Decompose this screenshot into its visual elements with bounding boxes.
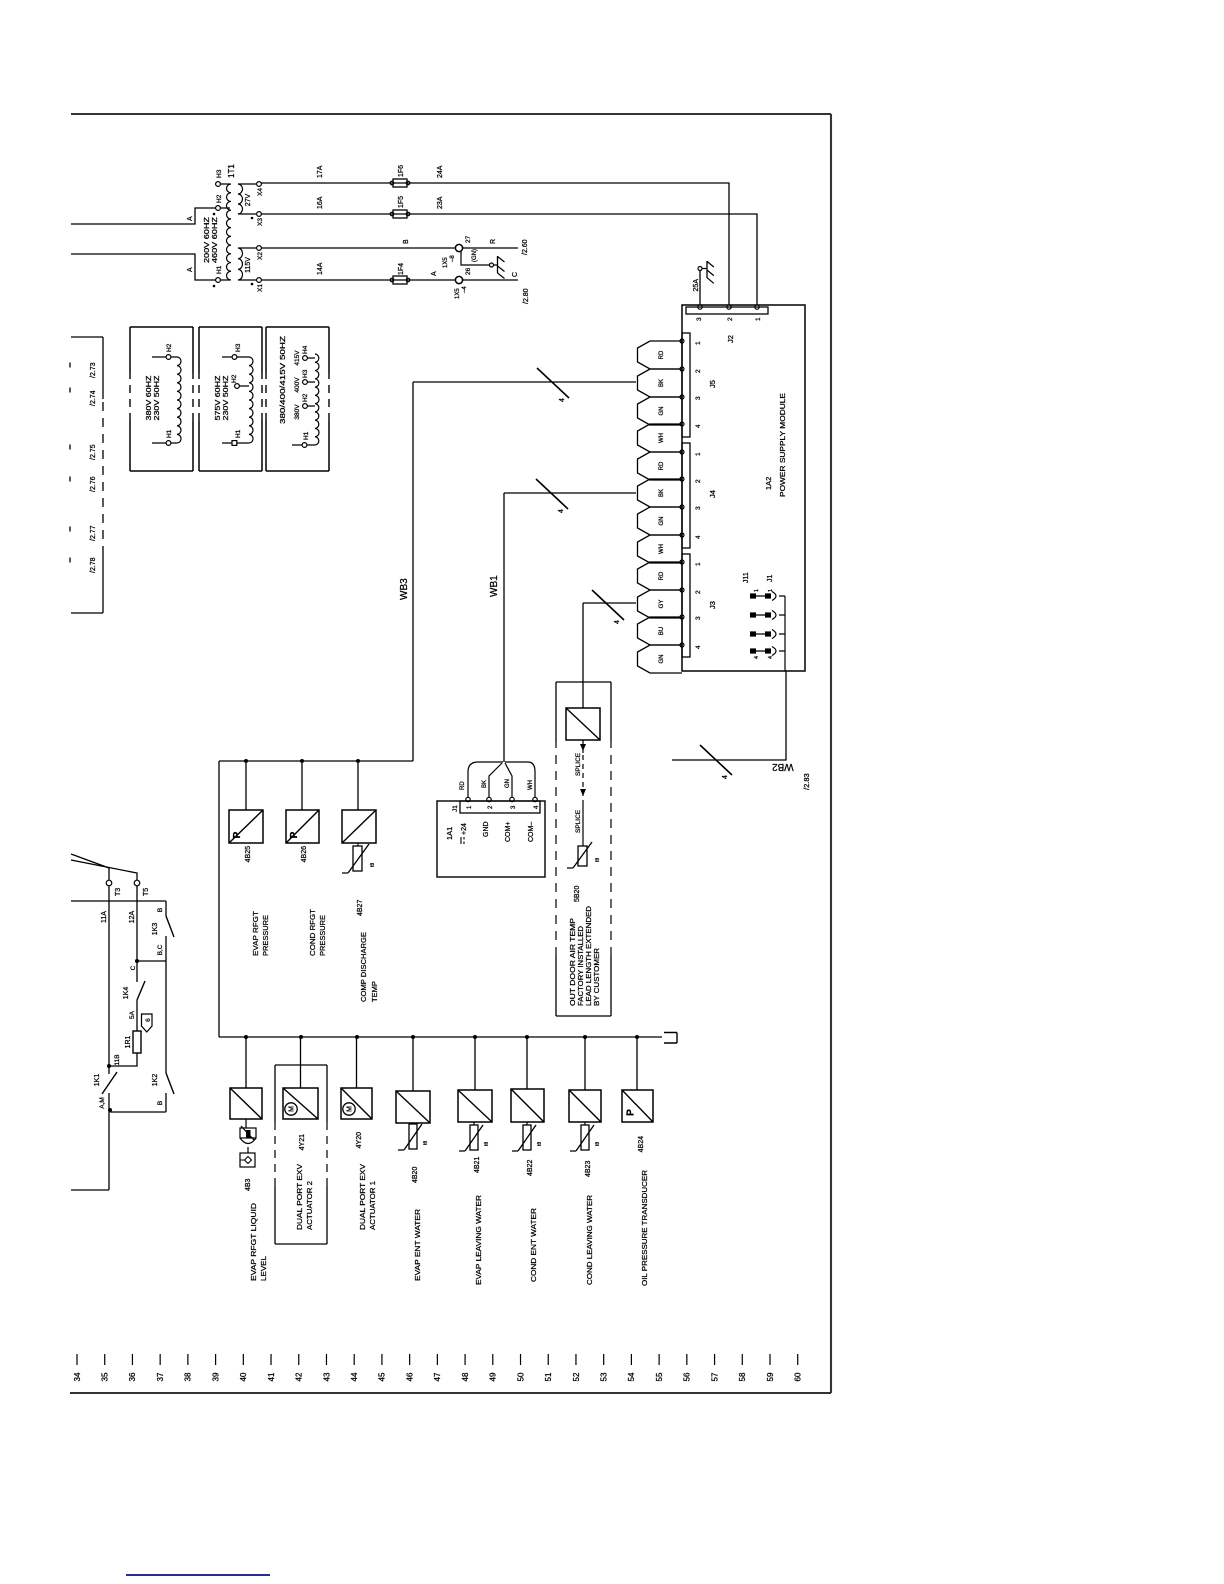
sensor 5B20 thermistor xyxy=(578,846,587,866)
junction dot 11B xyxy=(107,1064,111,1068)
svg-text:400V: 400V xyxy=(294,377,301,393)
1T1 115V secondary winding xyxy=(238,248,243,280)
4B21 wire to rail xyxy=(474,1038,476,1090)
svg-text:RD: RD xyxy=(460,781,466,790)
wire segment to 1K2 xyxy=(165,961,167,1073)
svg-text:/2.80: /2.80 xyxy=(523,288,530,304)
splice junction box xyxy=(566,708,600,740)
svg-text:A,M: A,M xyxy=(99,1097,106,1109)
svg-text:H2: H2 xyxy=(231,374,238,383)
extended lead (dashed) xyxy=(582,755,584,798)
winding (380V/230V option) xyxy=(177,357,181,443)
svg-text:OIL PRESSURE TRANSDUCER: OIL PRESSURE TRANSDUCER xyxy=(640,1169,649,1286)
wire B,C segment xyxy=(165,936,167,961)
dashed option box (out door air temp sensor) xyxy=(556,1015,611,1017)
wire segment to junction xyxy=(108,1093,110,1190)
1A1 wire WH xyxy=(505,762,535,797)
J4 pin 4 xyxy=(680,533,684,537)
svg-text:B,C: B,C xyxy=(157,944,164,955)
svg-text:(GN): (GN) xyxy=(472,249,478,262)
4B26 wire xyxy=(301,763,303,810)
terminal H2 tap (575V option) xyxy=(235,384,240,389)
wire to top border xyxy=(71,1189,109,1191)
svg-text:12A: 12A xyxy=(129,910,136,923)
sensor 4B22 cond ent water xyxy=(511,1089,544,1122)
J4 wire RD xyxy=(638,452,683,480)
wire tee to 12A rail xyxy=(137,960,166,962)
wire count slash WB2 xyxy=(700,745,732,775)
svg-text:4B23: 4B23 xyxy=(585,1161,592,1177)
svg-text:3: 3 xyxy=(695,616,702,620)
svg-text:ACTUATOR 2: ACTUATOR 2 xyxy=(305,1181,314,1230)
svg-text:35: 35 xyxy=(101,1372,110,1381)
svg-text:1: 1 xyxy=(755,317,762,321)
svg-text:B: B xyxy=(157,1101,164,1105)
svg-text:EVAP LEAVING WATER: EVAP LEAVING WATER xyxy=(474,1194,483,1285)
svg-text:J4: J4 xyxy=(708,490,717,498)
svg-text:53: 53 xyxy=(599,1372,608,1381)
svg-text:1K4: 1K4 xyxy=(123,987,130,1000)
ground terminal circle xyxy=(490,263,494,267)
svg-text:WH: WH xyxy=(659,433,665,443)
svg-text:GY: GY xyxy=(659,600,665,609)
svg-text:COMP DISCHARGE: COMP DISCHARGE xyxy=(359,932,368,1002)
fuse 1F5 xyxy=(393,210,407,218)
actuator 4Y21 dual port exv actuator 2 xyxy=(283,1088,318,1119)
connector J5 housing xyxy=(682,333,690,437)
terminal H3 tap 400V xyxy=(303,380,308,385)
svg-text:T5: T5 xyxy=(143,888,150,896)
svg-text:H3: H3 xyxy=(216,169,223,178)
terminal H4 tap 415V xyxy=(303,356,308,361)
svg-text:56: 56 xyxy=(683,1372,692,1381)
svg-text:2: 2 xyxy=(695,369,702,373)
4Y20 wire to rail xyxy=(356,1038,358,1088)
svg-text:X4: X4 xyxy=(257,188,264,196)
svg-text:575V 60HZ: 575V 60HZ xyxy=(215,375,222,421)
svg-text:RD: RD xyxy=(659,571,665,580)
svg-text:J1: J1 xyxy=(767,575,774,583)
svg-text:1: 1 xyxy=(754,589,760,592)
svg-text:DUAL PORT EXV: DUAL PORT EXV xyxy=(358,1164,367,1230)
svg-text:H4: H4 xyxy=(302,345,309,354)
J5 wire BK xyxy=(638,369,683,397)
svg-text:4Y20: 4Y20 xyxy=(356,1132,363,1148)
junction 4Y21 xyxy=(299,1035,303,1039)
junction 4B25 xyxy=(244,759,248,763)
svg-text:FACTORY INSTALLED: FACTORY INSTALLED xyxy=(578,926,585,1006)
svg-text:WH: WH xyxy=(528,780,534,790)
jumper pin row 4 J11-J1 xyxy=(750,648,756,653)
svg-text:1X5: 1X5 xyxy=(443,257,449,268)
J3 pin 1 xyxy=(680,560,684,564)
svg-text:16A: 16A xyxy=(317,196,324,209)
wire B segment xyxy=(165,901,167,916)
svg-text:OUT DOOR AIR TEMP: OUT DOOR AIR TEMP xyxy=(570,918,577,1006)
J4 wire WH xyxy=(638,535,683,563)
4B27 thermistor xyxy=(353,846,362,871)
J4 wire BK xyxy=(638,479,683,507)
svg-text:5B20: 5B20 xyxy=(574,886,581,902)
svg-text:EVAP ENT WATER: EVAP ENT WATER xyxy=(413,1208,422,1281)
svg-text:3: 3 xyxy=(695,506,702,510)
junction 4B24 xyxy=(635,1035,639,1039)
svg-text:14A: 14A xyxy=(317,262,324,275)
svg-text:/2.83: /2.83 xyxy=(802,773,811,790)
fuse 1F6 xyxy=(393,179,407,187)
svg-text:EVAP RFGT LIQUID: EVAP RFGT LIQUID xyxy=(249,1202,258,1281)
terminal H1 (415V option) xyxy=(292,444,302,446)
sensor 4B21 evap leaving water xyxy=(458,1090,492,1122)
svg-text:WB1: WB1 xyxy=(489,575,500,597)
svg-text:4: 4 xyxy=(558,509,565,513)
J5 wire RD xyxy=(638,341,683,369)
svg-text:49: 49 xyxy=(489,1372,498,1381)
wire 11A rail xyxy=(108,886,110,1074)
svg-text:COM+: COM+ xyxy=(505,822,512,842)
4B3 wire to rail xyxy=(245,1038,247,1088)
svg-text:LEVEL: LEVEL xyxy=(259,1256,268,1281)
junction 4Y20 xyxy=(355,1035,359,1039)
wire 14A from X1 xyxy=(261,279,408,281)
J5 pin 3 xyxy=(680,395,684,399)
splice lead (factory) xyxy=(582,740,584,753)
svg-text:GN: GN xyxy=(505,779,511,788)
svg-text:3: 3 xyxy=(696,317,703,321)
junction 4B21 xyxy=(473,1035,477,1039)
wire segment after 1K2 xyxy=(165,1093,167,1112)
4B23 wire to rail xyxy=(584,1038,586,1090)
1A1 J1 connector strip xyxy=(460,801,540,813)
svg-text:51: 51 xyxy=(544,1372,553,1381)
terminal T5 xyxy=(134,880,140,886)
svg-text:BK: BK xyxy=(659,379,665,387)
J3 pin 4 xyxy=(680,643,684,647)
1T1 terminal H1 xyxy=(216,278,221,283)
svg-text:C: C xyxy=(512,272,519,277)
4B20 thermistor xyxy=(409,1124,417,1149)
svg-text:27V: 27V xyxy=(245,193,252,206)
J1 common wire to WB2 xyxy=(784,596,786,671)
terminal H2 (380V option) xyxy=(152,356,166,358)
svg-text:115V: 115V xyxy=(245,257,252,273)
svg-text:M: M xyxy=(347,1106,354,1112)
J5 wire WH xyxy=(638,424,683,452)
svg-text:tθ: tθ xyxy=(423,1141,429,1145)
svg-text:52: 52 xyxy=(572,1372,581,1381)
svg-text:X3: X3 xyxy=(257,218,264,226)
4B20 wire to rail xyxy=(412,1038,414,1091)
junction 4B22 xyxy=(525,1035,529,1039)
bus WB2 xyxy=(672,671,786,760)
svg-text:4B24: 4B24 xyxy=(638,1136,645,1152)
wire 24A to J2 pin 2 xyxy=(407,183,729,305)
svg-text:4: 4 xyxy=(534,805,540,809)
svg-text:1K1: 1K1 xyxy=(94,1074,101,1087)
svg-text:48: 48 xyxy=(461,1372,470,1381)
svg-text:24A: 24A xyxy=(437,165,444,178)
svg-text:BK: BK xyxy=(659,489,665,497)
svg-text:230V 50HZ: 230V 50HZ xyxy=(154,375,161,421)
jumper pin row 1 J11-J1 xyxy=(750,593,756,598)
svg-text:43: 43 xyxy=(322,1372,331,1381)
chassis ground symbol xyxy=(494,264,498,266)
svg-text:tθ: tθ xyxy=(595,1142,601,1146)
svg-text:tθ: tθ xyxy=(484,1142,490,1146)
svg-text:GN: GN xyxy=(659,407,665,416)
svg-text:6: 6 xyxy=(145,1018,152,1022)
svg-text:57: 57 xyxy=(710,1372,719,1381)
4B25 wire xyxy=(245,763,247,810)
wire from border to terminal T3 xyxy=(71,854,109,880)
1T1 primary winding xyxy=(226,184,231,280)
svg-text:1F5: 1F5 xyxy=(398,196,405,208)
1A1 wire GN xyxy=(505,763,512,797)
svg-text:54: 54 xyxy=(627,1372,636,1381)
svg-text:RD: RD xyxy=(659,350,665,359)
power supply module 1A2 box xyxy=(682,305,805,671)
sensor 4B3 evap rfgt liquid level xyxy=(230,1088,262,1119)
svg-text:4: 4 xyxy=(754,656,760,659)
contact 1K1 xyxy=(102,1072,117,1094)
J4 wire GN xyxy=(638,507,683,535)
svg-text:41: 41 xyxy=(267,1372,276,1381)
svg-text:46: 46 xyxy=(405,1372,414,1381)
svg-text:X1: X1 xyxy=(257,284,264,292)
1T1 27V secondary winding xyxy=(238,184,243,214)
svg-text:5A: 5A xyxy=(129,1010,136,1019)
svg-text:J3: J3 xyxy=(708,601,717,609)
wire 16A from X3 xyxy=(261,213,408,215)
wire 27 to chassis ground xyxy=(461,251,489,265)
svg-text:27: 27 xyxy=(465,235,472,243)
svg-text:H2: H2 xyxy=(166,343,173,352)
actuator 4Y20 dual port exv actuator 1 xyxy=(341,1088,372,1119)
junction 4B3 xyxy=(244,1035,248,1039)
optional transformer box 380V 60HZ / 230V 50HZ xyxy=(130,470,193,472)
svg-text:3: 3 xyxy=(511,805,517,809)
svg-text:/2.77: /2.77 xyxy=(90,525,97,541)
svg-text:ACTUATOR 1: ACTUATOR 1 xyxy=(368,1181,377,1230)
contact 1K2 xyxy=(166,1073,174,1094)
1T1 terminal X2 xyxy=(238,247,256,249)
terminal 1X5-26 xyxy=(455,276,462,283)
lead to sensor xyxy=(582,800,584,846)
svg-text:C: C xyxy=(130,965,137,970)
J4 pin 2 xyxy=(680,477,684,481)
svg-text:A: A xyxy=(187,216,194,221)
svg-text:H2: H2 xyxy=(302,393,309,402)
polarity dot X3 xyxy=(251,217,254,220)
svg-text:H3: H3 xyxy=(302,369,309,378)
svg-text:4: 4 xyxy=(614,620,621,624)
svg-text:P: P xyxy=(626,1109,637,1116)
svg-text:380V 60HZ: 380V 60HZ xyxy=(146,375,153,421)
4B21 thermistor xyxy=(470,1125,478,1150)
4B24 wire to rail xyxy=(636,1038,638,1090)
svg-text:42: 42 xyxy=(295,1372,304,1381)
svg-text:GN: GN xyxy=(659,517,665,526)
wire 5A segment xyxy=(136,1000,138,1031)
svg-text:4: 4 xyxy=(695,535,702,539)
J4 pin 1 xyxy=(680,450,684,454)
svg-text:J11: J11 xyxy=(743,572,750,583)
svg-text:J1: J1 xyxy=(452,805,459,812)
1T1 terminal X1 xyxy=(238,279,256,281)
svg-text:26: 26 xyxy=(465,267,472,275)
supply bus drop wire (left) xyxy=(71,612,103,614)
junction 4B27 xyxy=(356,759,360,763)
svg-text:39: 39 xyxy=(211,1372,220,1381)
svg-text:BK: BK xyxy=(482,780,488,788)
svg-text:PRESSURE: PRESSURE xyxy=(318,915,327,956)
svg-text:1R1: 1R1 xyxy=(125,1035,132,1048)
svg-text:H1: H1 xyxy=(216,265,223,274)
winding (380/400/415V option) xyxy=(315,354,319,445)
J3 wire GN xyxy=(638,645,683,673)
connector J2 body xyxy=(686,307,768,314)
svg-text:BU: BU xyxy=(659,627,665,635)
svg-text:T3: T3 xyxy=(115,888,122,896)
4B3 switch element xyxy=(247,1147,249,1153)
svg-text:/2.75: /2.75 xyxy=(90,444,97,460)
winding (575V option) xyxy=(249,357,253,443)
svg-text:200V 60HZ: 200V 60HZ xyxy=(204,216,211,263)
svg-text:/2.76: /2.76 xyxy=(90,476,97,492)
polarity dot X1 xyxy=(251,283,254,286)
svg-text:3: 3 xyxy=(695,396,702,400)
svg-text:23A: 23A xyxy=(437,196,444,209)
svg-text:1: 1 xyxy=(467,805,473,809)
terminal H2 tap 380V xyxy=(303,404,308,409)
J4 pin 3 xyxy=(680,505,684,509)
J3 pin 3 xyxy=(680,615,684,619)
svg-text:–8: –8 xyxy=(450,255,456,262)
ground terminal circle 25A xyxy=(698,267,702,271)
wire 23A to J2 pin 1 xyxy=(407,214,757,305)
svg-text:55: 55 xyxy=(655,1372,664,1381)
svg-text:COM–: COM– xyxy=(528,822,535,842)
chassis ground symbol at J2-3 xyxy=(702,268,707,270)
terminal 1X5-27 xyxy=(455,244,462,251)
svg-text:1F6: 1F6 xyxy=(398,165,405,177)
svg-text:17A: 17A xyxy=(317,165,324,178)
svg-text:1F4: 1F4 xyxy=(398,263,405,275)
bus WB3 xyxy=(219,382,636,1037)
svg-text:tθ: tθ xyxy=(595,858,601,862)
svg-text:1X5: 1X5 xyxy=(455,288,461,299)
svg-text:TEMP: TEMP xyxy=(370,981,379,1002)
svg-text:380/400/415V 50HZ: 380/400/415V 50HZ xyxy=(280,335,287,424)
J5 wire GN xyxy=(638,397,683,425)
svg-text:WB3: WB3 xyxy=(399,578,410,600)
svg-text:34: 34 xyxy=(73,1372,82,1381)
J3 pin 2 xyxy=(680,588,684,592)
svg-text:11A: 11A xyxy=(101,911,108,923)
svg-text:4B22: 4B22 xyxy=(527,1160,534,1176)
polarity dot H2 xyxy=(213,213,216,216)
wire R to /2.60 xyxy=(463,247,518,249)
4B22 thermistor xyxy=(523,1125,531,1150)
svg-text:PRESSURE: PRESSURE xyxy=(261,915,270,956)
svg-text:1A1: 1A1 xyxy=(445,827,454,840)
4B3 level sensor element xyxy=(245,1119,247,1128)
wire number flag 6 xyxy=(142,1014,153,1032)
polarity dot H1 xyxy=(213,285,216,288)
4Y21 wire to rail xyxy=(300,1038,302,1088)
1A1 +24 label with DC symbol xyxy=(460,837,462,844)
svg-text:58: 58 xyxy=(738,1372,747,1381)
contact 1K4 xyxy=(137,981,145,1000)
wire count slash J3 cable xyxy=(592,590,624,620)
svg-text:4B20: 4B20 xyxy=(412,1167,419,1183)
svg-text:36: 36 xyxy=(128,1372,137,1381)
svg-text:50: 50 xyxy=(516,1372,525,1381)
junction dot 12A/B xyxy=(135,959,139,963)
sensor 4B27 comp discharge temp xyxy=(342,810,376,843)
svg-text:230V 50HZ: 230V 50HZ xyxy=(223,375,230,421)
svg-text:/2.60: /2.60 xyxy=(522,239,529,255)
svg-text:4: 4 xyxy=(768,656,774,659)
cable end bracket xyxy=(664,1033,677,1044)
svg-text:COND RFGT: COND RFGT xyxy=(308,909,317,956)
svg-text:+24: +24 xyxy=(461,823,468,835)
1T1 terminal H2 xyxy=(216,206,221,211)
svg-text:H1: H1 xyxy=(166,429,173,438)
svg-text:11B: 11B xyxy=(114,1054,121,1065)
wire splice to J3 xyxy=(583,603,636,708)
resistor 1R1 xyxy=(133,1031,141,1053)
sensor 4B24 oil pressure transducer xyxy=(622,1090,653,1122)
svg-text:A: A xyxy=(187,267,194,272)
J3 wire RD xyxy=(638,562,683,590)
connector J3 housing xyxy=(682,554,690,657)
wire from top border to contact rail xyxy=(71,900,166,902)
wire A segment xyxy=(407,279,455,281)
wire count slash WB1 xyxy=(536,479,568,509)
svg-text:H1: H1 xyxy=(235,429,242,438)
svg-text:tθ: tθ xyxy=(370,863,376,867)
svg-text:380V: 380V xyxy=(294,404,301,420)
svg-text:B: B xyxy=(403,239,410,244)
svg-text:4B25: 4B25 xyxy=(245,846,252,862)
jumper pin row 3 J11-J1 xyxy=(750,631,756,636)
svg-text:/2.74: /2.74 xyxy=(90,390,97,406)
1A1 wire BK xyxy=(489,763,502,797)
sensor 4B23 cond leaving water xyxy=(569,1090,601,1122)
EXV actuator 2 dashed box xyxy=(275,1243,327,1245)
4B27 wire xyxy=(357,763,359,810)
4B22 wire to rail xyxy=(526,1038,528,1089)
1T1 terminal X4 xyxy=(238,183,256,185)
svg-text:tθ: tθ xyxy=(537,1142,543,1146)
svg-text:BY CUSTOMER: BY CUSTOMER xyxy=(594,948,601,1006)
device bus rail xyxy=(219,1036,662,1038)
svg-text:H1: H1 xyxy=(303,431,310,440)
svg-text:4B21: 4B21 xyxy=(474,1157,481,1173)
1T1 terminal X3 xyxy=(238,213,256,215)
svg-text:1K2: 1K2 xyxy=(152,1074,159,1087)
J5 pin 2 xyxy=(680,367,684,371)
svg-text:44: 44 xyxy=(350,1372,359,1381)
svg-text:COND LEAVING WATER: COND LEAVING WATER xyxy=(585,1194,594,1285)
wire 25A ground stub xyxy=(699,271,701,305)
wire 11B segment xyxy=(109,1053,137,1066)
svg-text:RD: RD xyxy=(659,461,665,470)
svg-text:1: 1 xyxy=(695,341,702,345)
junction dot A xyxy=(108,1108,112,1112)
module 1A1 box xyxy=(437,801,545,877)
